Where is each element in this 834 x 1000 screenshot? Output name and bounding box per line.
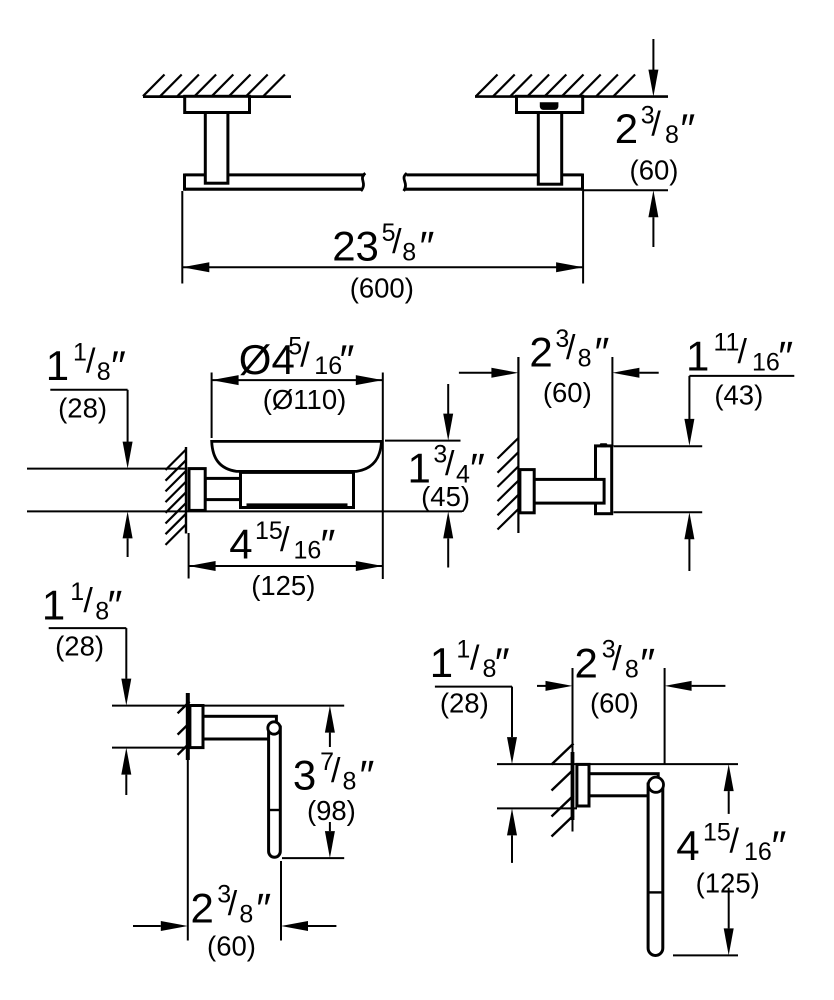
dimension text 2 3/8 inch (hook) (529, 325, 609, 376)
extension line bar bottom (holder BL) (282, 857, 344, 859)
svg-text:8: 8 (239, 900, 253, 928)
svg-text:/: / (612, 640, 622, 678)
wall hatch ticks (holder BR) (552, 744, 574, 837)
svg-text:4: 4 (676, 822, 699, 869)
svg-text:2: 2 (575, 639, 598, 686)
screw tick on hook top (600, 443, 608, 447)
pivot knuckle (holder BR) (648, 777, 663, 792)
svg-text:(60): (60) (543, 377, 592, 408)
dimension text 3 7/8 inch (293, 748, 375, 799)
dimension 2 3/8 hook - right arrow (639, 372, 658, 374)
extension line hook front (611, 357, 613, 446)
hook arm (534, 479, 604, 503)
svg-text:(28): (28) (58, 393, 107, 424)
svg-text:16: 16 (744, 838, 772, 866)
shelf line 1 11/16 (689, 375, 794, 377)
dimension line diameter 110 (212, 379, 383, 381)
extension line hook bottom right (614, 511, 703, 513)
hook front plate (596, 446, 612, 514)
svg-text:″: ″ (420, 222, 435, 269)
svg-text:8: 8 (97, 358, 111, 386)
svg-text:/: / (83, 582, 93, 620)
svg-text:15: 15 (255, 517, 283, 545)
right mounting post (538, 113, 561, 185)
holder arm (soap dish) (205, 478, 245, 499)
dimension text 1 1/8 inch (holder BR) (430, 635, 510, 686)
svg-text:8: 8 (578, 344, 592, 372)
wall plate (holder BR) (577, 764, 589, 806)
dimension 3 7/8 - top arrow (329, 733, 331, 747)
dimension 4 15/16 - top arrow (728, 791, 730, 814)
wall hatch right (towel bar) (476, 75, 635, 97)
wall hatch (soap dish) (166, 450, 187, 545)
svg-text:″: ″ (256, 884, 271, 931)
svg-text:/: / (566, 329, 576, 367)
extension line plate top (holder BL) (112, 705, 344, 707)
dimension text dia 4 5/16 inch (239, 332, 355, 383)
wall line (soap dish) (185, 447, 187, 534)
extension line wall bottom (125 dim) (188, 533, 190, 579)
dimension text 1 1/8 inch (holder BL) (42, 578, 123, 629)
svg-text:/: / (392, 223, 402, 261)
svg-text:(98): (98) (307, 795, 356, 826)
extension line plate bottom (holder BR) (497, 807, 577, 809)
leader + down arrow (28) holder BR (511, 687, 513, 738)
svg-text:″: ″ (321, 521, 336, 568)
rail break lines (361, 173, 407, 191)
svg-text:(60): (60) (630, 154, 679, 185)
dimension 2 3/8 holder BR - left arrow (537, 685, 546, 687)
svg-text:1: 1 (42, 582, 65, 629)
up arrow (28) holder BL (125, 775, 127, 795)
svg-text:4: 4 (229, 521, 252, 568)
dimension 3 7/8 - bottom arrow (329, 822, 331, 831)
dimension text 1 3/4 inch (408, 441, 486, 492)
extension line bar bottom (holder BR) (673, 954, 738, 956)
svg-text:/: / (86, 342, 96, 380)
svg-text:(125): (125) (696, 868, 760, 899)
svg-text:/: / (300, 337, 310, 375)
leader + down arrow (28) soap dish (127, 390, 129, 442)
svg-text:/: / (651, 106, 661, 144)
svg-text:1: 1 (73, 338, 87, 366)
svg-text:2: 2 (615, 105, 638, 152)
svg-text:8: 8 (402, 238, 416, 266)
svg-text:(Ø110): (Ø110) (263, 384, 347, 415)
svg-text:(600): (600) (350, 273, 414, 304)
svg-text:(45): (45) (421, 481, 470, 512)
extension line bar right (holder BR) (664, 668, 666, 764)
left mounting post (205, 113, 228, 184)
dish holder ring (241, 472, 354, 507)
svg-text:8: 8 (625, 655, 639, 683)
dimension 2 3/8 hook - left arrow (459, 372, 492, 374)
right wall flange (517, 96, 583, 112)
svg-text:/: / (738, 333, 748, 371)
leader + down arrow (28) holder BL (125, 628, 127, 679)
svg-text:16: 16 (314, 352, 342, 380)
svg-text:8: 8 (665, 121, 679, 149)
up arrow (28) holder BR (511, 835, 513, 863)
svg-text:2: 2 (529, 328, 552, 375)
down arrow 2 3/8 dim (652, 39, 654, 71)
svg-text:/: / (470, 639, 480, 677)
wall hatch left (towel bar) (143, 75, 285, 97)
extension line hook top right (614, 445, 703, 447)
wall plate (soap dish) (189, 469, 205, 511)
extension line left end of bar (181, 191, 183, 284)
svg-text:2: 2 (191, 884, 214, 931)
wall line (holder BL) (186, 693, 190, 760)
pivot knuckle (holder BL) (268, 722, 280, 734)
up arrow 1 11/16 (688, 539, 690, 571)
extension line dish left (211, 373, 213, 439)
wall line (hook) (517, 357, 519, 533)
svg-text:1: 1 (46, 342, 69, 389)
svg-text:11: 11 (714, 329, 740, 357)
extension line plate top (holder BR) (497, 763, 738, 765)
dimension text 23 5/8 inch (332, 219, 434, 270)
dimension line 23 5/8 (600) (182, 266, 583, 268)
dimension 2 3/8 holder BL - right arrow (308, 925, 336, 927)
roll bar joint line (holder BL) (269, 809, 281, 811)
svg-text:8: 8 (343, 768, 357, 796)
extension line dish top right (385, 440, 461, 442)
svg-text:/: / (228, 885, 238, 923)
wall plate (hook) (520, 470, 534, 513)
shelf line 1 1/8 (holder BR) (435, 686, 512, 688)
left wall flange (185, 96, 250, 112)
extension line bar right (holder BL) (280, 861, 282, 941)
dimension text 1 1/8 inch (soap dish) (46, 338, 126, 389)
shelf line 1 1/8 (holder BL) (49, 627, 127, 629)
shelf line 1 1/8 (soap dish) (50, 389, 127, 391)
svg-text:″: ″ (772, 822, 787, 869)
svg-text:1: 1 (70, 578, 84, 606)
wall plate (holder BL) (190, 706, 203, 748)
dimension 2 3/8 holder BR - right arrow (692, 685, 726, 687)
svg-text:15: 15 (703, 818, 731, 846)
extension line plate top (soap dish) (27, 468, 186, 470)
svg-text:1: 1 (456, 635, 470, 663)
svg-text:″: ″ (778, 332, 793, 379)
wall line (holder BR) (572, 668, 574, 752)
set screw on right flange (540, 102, 559, 110)
up arrow 1 3/4 dim (447, 539, 449, 568)
svg-text:(60): (60) (207, 930, 256, 961)
svg-text:″: ″ (360, 752, 375, 799)
svg-text:″: ″ (495, 639, 510, 686)
svg-text:/: / (331, 752, 341, 790)
extension line dish right (long) (382, 373, 384, 580)
leader + down arrow 1 11/16 (688, 376, 690, 419)
svg-text:″: ″ (108, 582, 123, 629)
down arrow 1 3/4 dim (447, 384, 449, 415)
svg-text:″: ″ (595, 328, 610, 375)
holder arm (holder BL) (203, 716, 276, 739)
extension line plate bottom (holder BL) (112, 747, 188, 749)
roll bar (holder BR) (648, 784, 663, 955)
svg-text:(125): (125) (251, 570, 315, 601)
dimension text 2 3/8 inch (towel bar) (615, 102, 696, 153)
dimension 2 3/8 holder BL - left arrow (133, 925, 161, 927)
wall hatch ticks (holder BL) (178, 702, 190, 755)
dimension line 4 15/16 (125) (189, 565, 383, 567)
svg-text:1: 1 (686, 332, 709, 379)
svg-text:″: ″ (111, 342, 126, 389)
extension line right end of bar (582, 191, 584, 284)
roll bar (holder BL) (269, 727, 281, 857)
svg-text:(28): (28) (55, 630, 104, 661)
dimension 4 15/16 - bottom arrow (728, 888, 730, 929)
up arrow (28) soap dish (127, 539, 129, 558)
towel bar rail (185, 174, 583, 191)
svg-text:3: 3 (293, 752, 316, 799)
svg-text:″: ″ (680, 105, 695, 152)
svg-text:16: 16 (752, 348, 780, 376)
dimension text 2 3/8 inch (holder BL) (191, 881, 272, 932)
svg-text:″: ″ (470, 444, 485, 491)
dimension text 4 15/16 inch (soap dish) (229, 517, 335, 568)
wall hatch (hook) (498, 438, 519, 530)
svg-text:(60): (60) (590, 688, 639, 719)
extension line bottom (soap dish / 45 dim) (27, 510, 462, 512)
roll bar joint line (holder BR) (648, 891, 663, 893)
svg-text:/: / (445, 445, 455, 483)
svg-text:(28): (28) (440, 688, 489, 719)
svg-text:(43): (43) (714, 379, 763, 410)
svg-text:″: ″ (640, 639, 655, 686)
svg-text:″: ″ (340, 336, 355, 383)
soap dish bowl (212, 441, 382, 471)
svg-text:Ø4: Ø4 (239, 336, 295, 383)
svg-text:23: 23 (332, 222, 379, 269)
svg-text:/: / (730, 823, 740, 861)
dimension text 2 3/8 inch (holder BR) (575, 636, 656, 687)
svg-text:1: 1 (430, 639, 453, 686)
extension line bar bottom right (583, 189, 669, 191)
dimension text 1 11/16 inch (686, 329, 793, 380)
svg-text:/: / (280, 521, 290, 559)
holder arm (holder BR) (589, 774, 658, 796)
dimension text 4 15/16 inch (676, 818, 786, 869)
svg-text:16: 16 (294, 537, 322, 565)
up arrow 2 3/8 dim (652, 217, 654, 247)
